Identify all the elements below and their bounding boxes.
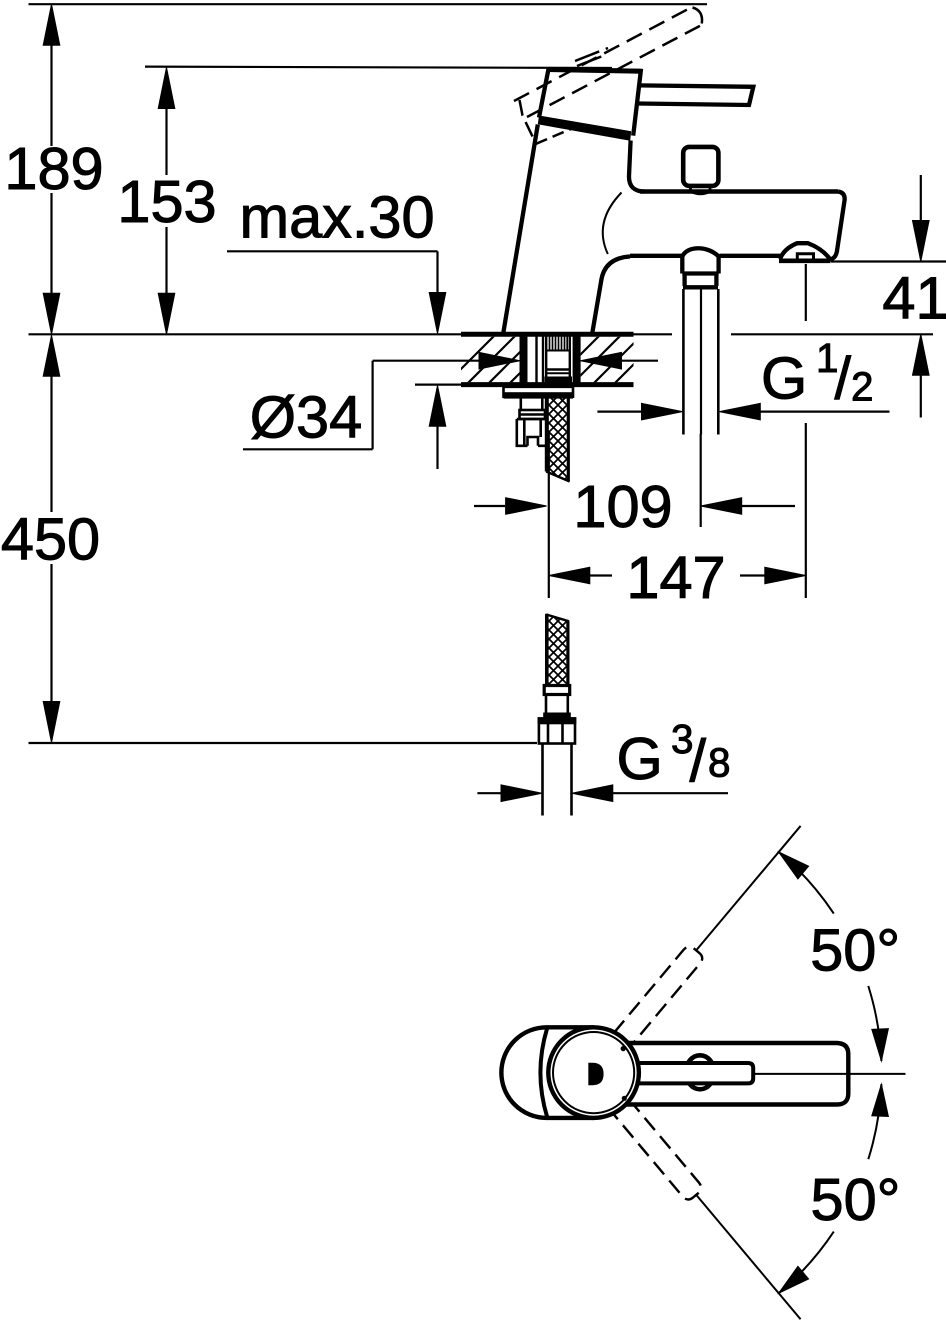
top view: spout body silhouette: [501, 1027, 593, 1118]
svg-text:G: G: [617, 725, 663, 792]
dashed head top edge: [575, 48, 608, 61]
reference line: max open-lever height (189): [29, 3, 708, 5]
spout right edge: [830, 192, 845, 260]
braided supply hose (lower segment): [546, 614, 568, 685]
arc arrowheads: [779, 852, 809, 879]
svg-text:450: 450: [1, 506, 100, 573]
hose ferrule: [544, 686, 570, 695]
diverter knob: [683, 147, 718, 186]
svg-text:189: 189: [4, 135, 103, 202]
G3/8 union nut: [539, 719, 575, 744]
backnut flange: [504, 387, 574, 399]
spout top edge: [640, 189, 838, 194]
connector ring: [543, 713, 571, 719]
extension line: faucet centreline: [548, 432, 550, 598]
spout underside: [630, 254, 682, 258]
braided supply hose (upper segment): [546, 398, 569, 482]
top view: lever outline: [625, 1043, 848, 1105]
svg-text:41: 41: [882, 265, 946, 332]
faucet handle head: [539, 69, 641, 136]
svg-text:147: 147: [626, 544, 725, 611]
supply pipe: [543, 744, 572, 816]
shower outlet dome and boss: [682, 248, 718, 286]
dashed lever top edge: [514, 7, 692, 101]
svg-text:2: 2: [851, 363, 874, 409]
reference line: spout underside (41 upper): [831, 260, 946, 262]
svg-text:109: 109: [573, 473, 672, 540]
dimension Ø34 (hole diameter): [243, 352, 658, 450]
svg-text:153: 153: [117, 168, 216, 235]
svg-text:/: /: [690, 727, 707, 794]
top view: index dots: [621, 1046, 626, 1051]
top view: dashed lever position upper (50 deg): [614, 944, 705, 1047]
top view: handle base outer circle: [548, 1027, 639, 1118]
deck hatching: [440, 330, 689, 390]
dashed collar line: [536, 129, 572, 144]
lever (closed position): [638, 85, 754, 105]
svg-text:G: G: [761, 345, 807, 412]
dimension 109 (centre to shower hose): [474, 434, 795, 540]
leader line upper 50 deg: [696, 826, 800, 950]
dashed handle: open position: [514, 7, 703, 144]
angle arc upper (broken at label): [779, 852, 834, 914]
dimension G 1/2 (shower hose thread): [597, 335, 889, 420]
top view: dashed lever position lower (50 deg): [613, 1099, 704, 1202]
tailpiece with nut: [517, 399, 548, 446]
shower hose (3 lines): [682, 289, 685, 435]
top view: body edge arc: [540, 1028, 547, 1117]
aerator dome: [780, 243, 830, 259]
svg-text:/: /: [835, 345, 852, 412]
svg-text:50°: 50°: [811, 1166, 901, 1233]
reference line: closed-lever height (153): [145, 67, 612, 68]
dashed head left edge: [520, 100, 537, 144]
dimension G 3/8 (supply pipe thread): [477, 716, 730, 802]
reference line: 450 lower end: [29, 742, 538, 744]
svg-text:Ø34: Ø34: [250, 384, 362, 451]
dimension 147 (centre to aerator): [549, 264, 806, 611]
angle arc lower (broken at label): [868, 1084, 881, 1159]
dashed lever tip cap: [693, 8, 703, 24]
top view: cartridge hole (D shape): [588, 1063, 603, 1085]
extension line: aerator centreline: [805, 264, 807, 321]
dimension 450 (hose length below deck): [1, 335, 100, 742]
svg-text:max.30: max.30: [240, 184, 435, 251]
svg-text:8: 8: [708, 740, 731, 786]
dimension 189 (total height): [4, 4, 103, 334]
handle top edge (thick): [547, 70, 642, 72]
top view: diverter knob ellipse: [686, 1055, 715, 1089]
top view: lever grip bar: [625, 1063, 753, 1083]
leader line lower 50 deg: [696, 1195, 800, 1319]
body/spout fillet arc: [603, 193, 622, 255]
dashed lever bottom edge: [527, 25, 703, 118]
svg-text:50°: 50°: [810, 916, 900, 983]
top view: centreline: [753, 1073, 905, 1075]
reference line: deck baseline (right of shower hose): [731, 333, 933, 335]
faucet body outline: [503, 125, 645, 334]
top view: handle base inner circle: [553, 1032, 634, 1113]
reference line: deck / mounting surface baseline (left of shower hose): [29, 333, 673, 335]
deck (mounting surface): [461, 332, 634, 337]
threaded shank and bushing: [520, 333, 581, 387]
aerator insert: [797, 254, 813, 260]
dimension 41 (spout underside to deck): [882, 175, 946, 418]
handle collar band: [538, 116, 631, 141]
extension line: shower hose centre: [700, 434, 702, 527]
connector tube: [546, 695, 568, 713]
dimension max.30 (deck thickness): [227, 184, 446, 470]
dimension 153 (spout height): [117, 68, 216, 335]
